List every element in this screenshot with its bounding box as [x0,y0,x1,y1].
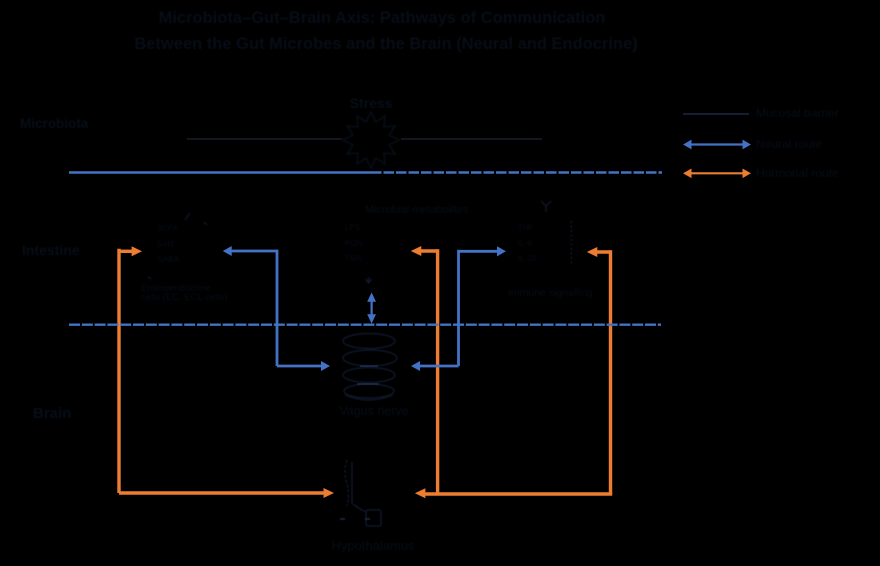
row label Microbiota [20,116,88,131]
orange connector left group to hypothalamus [119,247,333,497]
mucosal barrier line upper segment left of stress [187,138,342,140]
title line 2 [134,35,637,54]
title line 1 [159,9,606,28]
epithelium barrier line solid left part [69,171,371,173]
mast cell dotted membrane [570,221,572,264]
left group small dot [148,277,151,279]
antibody Y icon [541,201,551,212]
blue connector right group to vagus [412,247,505,370]
row label Intestine [22,242,80,258]
blue double arrow across BBB [368,294,375,323]
legend text 1: mucosal barrier [756,106,839,120]
orange connector center epithelium to hypothalamus [412,247,438,494]
left group caption: enteroendocrine cells [141,284,227,302]
epithelium barrier line dashed right part [371,171,662,173]
hypothalamus structure [340,460,381,526]
vagus coil highlight dashes [357,366,379,384]
label vagus nerve [339,404,408,418]
label Stress [350,95,393,111]
legend neural double arrow [684,141,750,149]
legend text 3: hormonal route [756,166,839,180]
blood brain barrier dashed line [69,324,661,326]
metabolite down arrow (center) [366,277,372,283]
legend hormonal double arrow [684,169,750,177]
right group caption: immune cells [508,287,593,299]
left group small tick icon [185,213,207,225]
stress starburst [343,112,399,168]
left group metabolite list [157,221,179,268]
row label Brain [33,405,71,422]
center group caption: microbial metabolites [365,204,468,216]
legend text 2: neural route [756,137,822,151]
mucosal barrier line upper segment right of stress [401,138,542,140]
right group cytokine list [518,220,536,267]
blue connector left group to vagus [224,247,329,370]
orange connector right group to hypothalamus [416,248,612,498]
label hypothalamus [331,538,414,553]
center group list [345,220,362,267]
legend sample line [683,113,749,115]
vagus nerve coil [343,334,397,401]
